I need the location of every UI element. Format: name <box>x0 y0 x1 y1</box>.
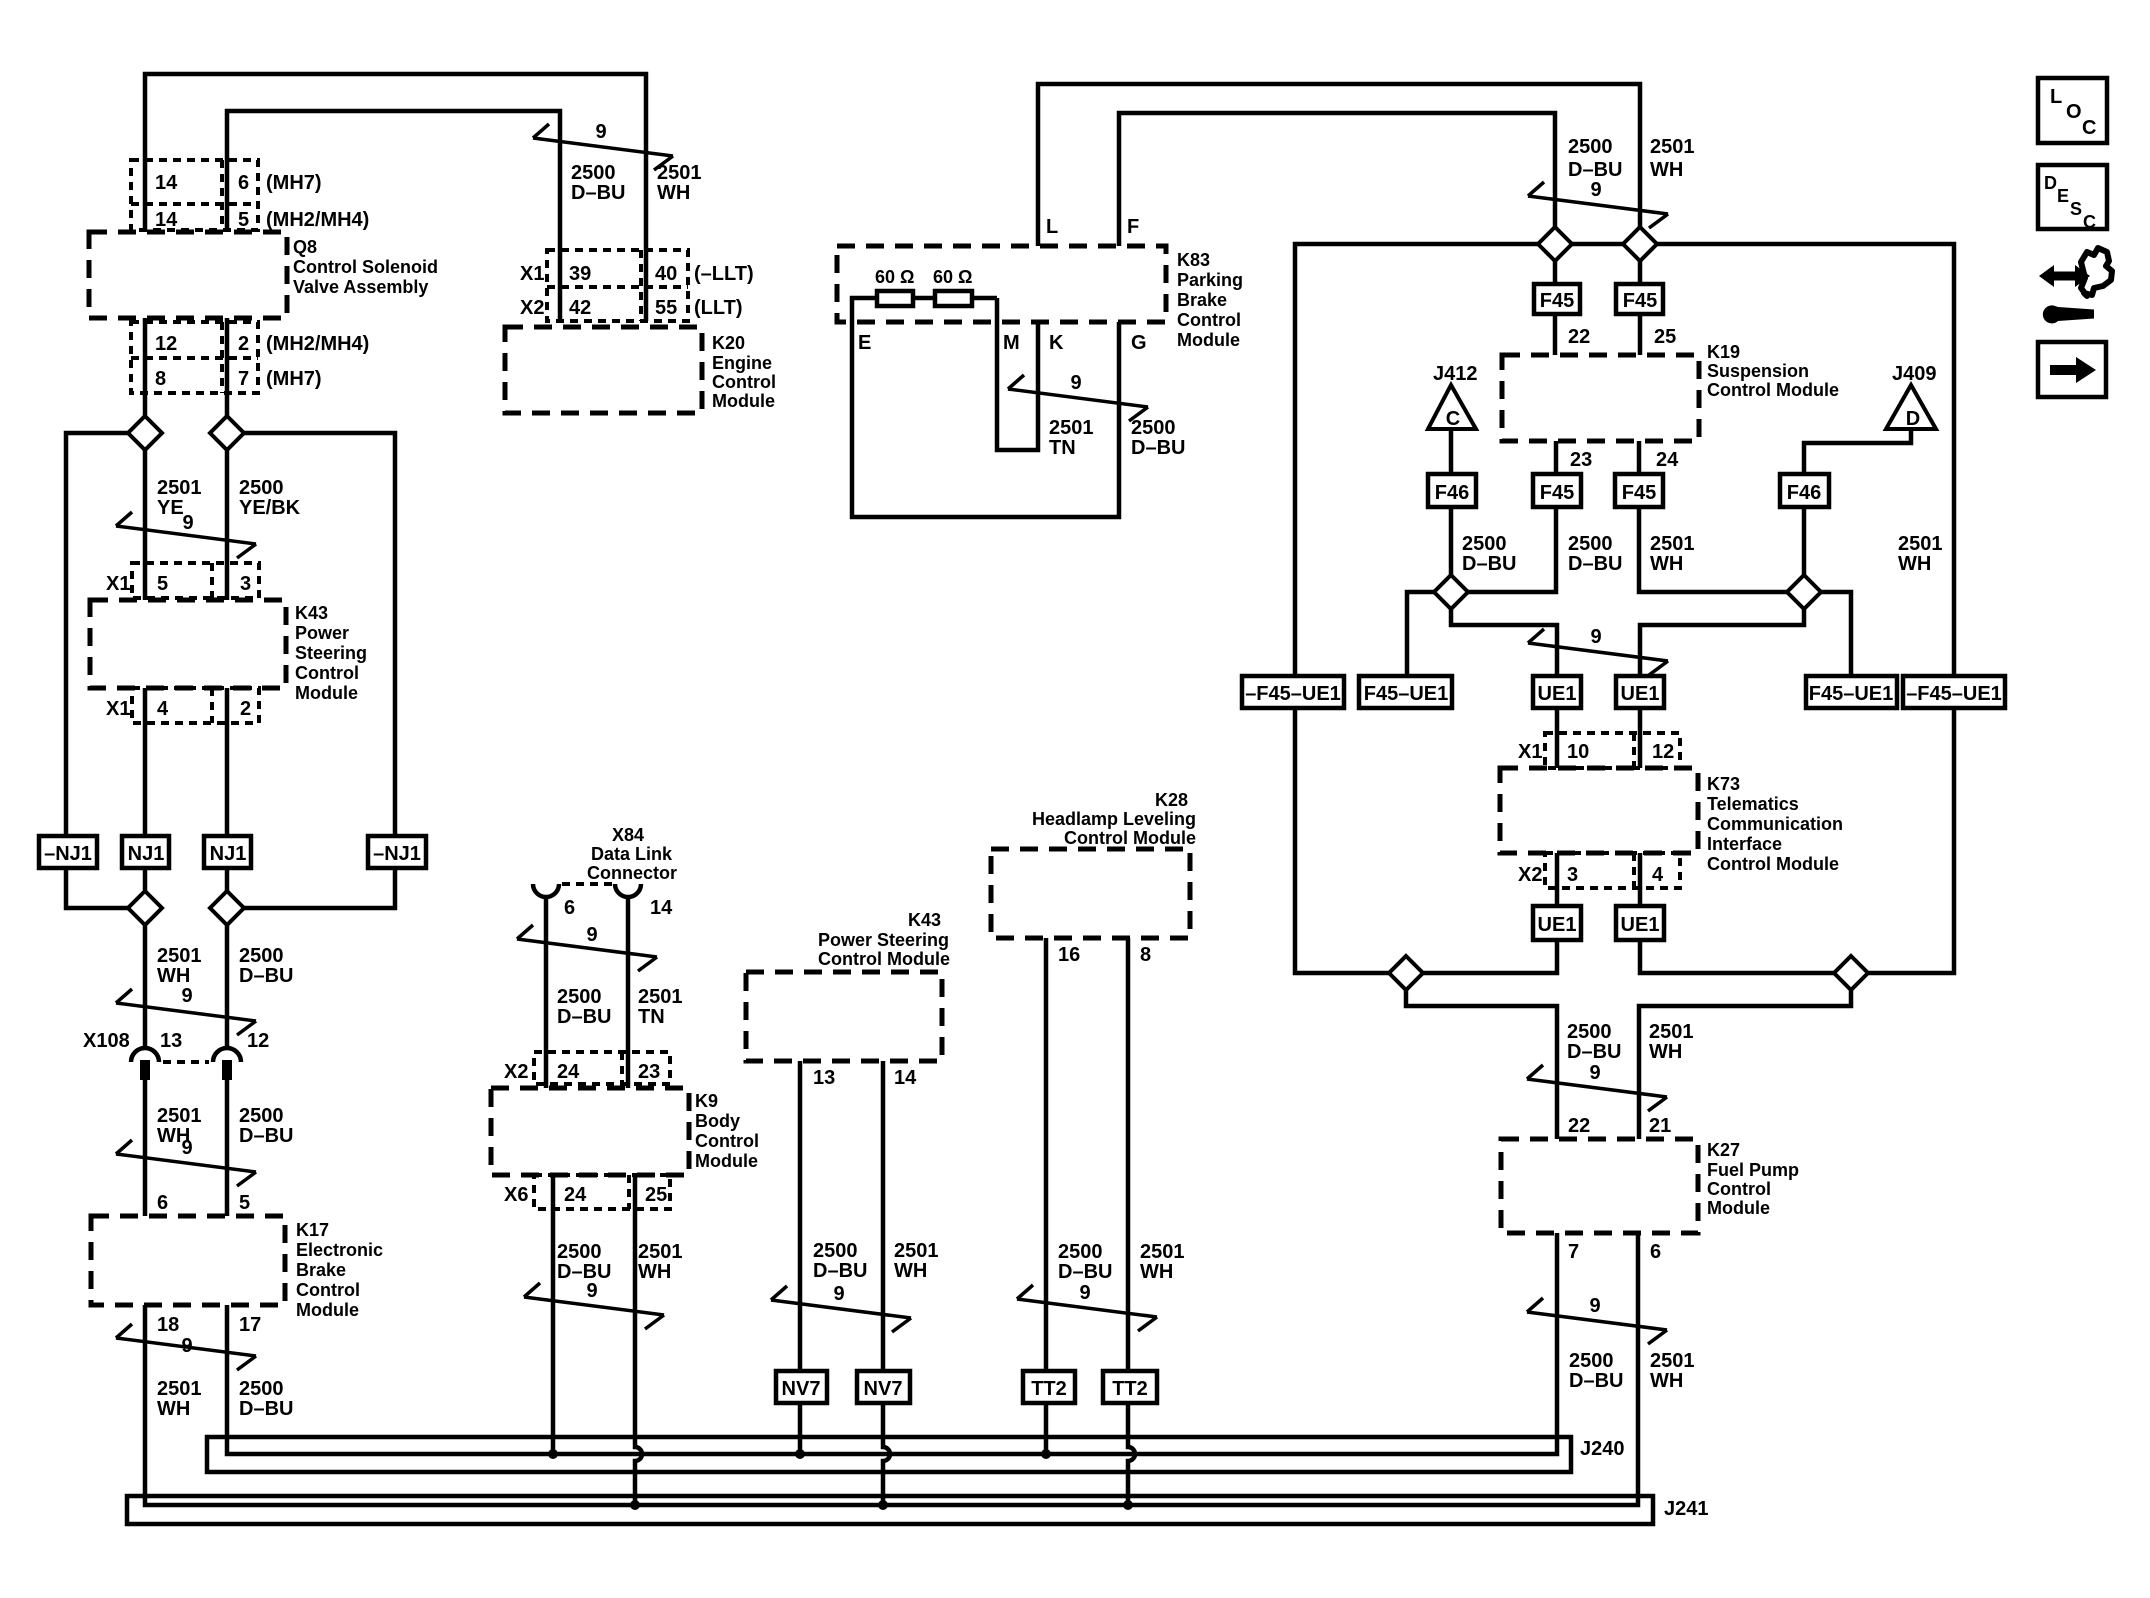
wire K83 pin M to pin K external loop 2501 TN <box>997 322 1038 450</box>
option box NV7 left <box>776 1371 827 1403</box>
svg-text:24: 24 <box>564 1184 587 1206</box>
wire 2501 YE from Q8 pin 14 up over to K20 pin 40/55 (2501 WH) <box>145 74 646 321</box>
svg-text:Connector: Connector <box>587 863 677 883</box>
svg-text:UE1: UE1 <box>1621 683 1660 705</box>
junction dot J240 at K28 wire <box>1041 1449 1051 1459</box>
wire 2501 from K43 pin 4 down <box>143 688 148 836</box>
svg-text:2501: 2501 <box>157 1105 202 1127</box>
node diamond on 2501 wire upper <box>128 416 162 450</box>
wire F46 left to diamond <box>1449 507 1454 575</box>
wire right bypass lower <box>244 868 395 908</box>
label K9 Body Control Module <box>695 1091 759 1171</box>
svg-text:2501: 2501 <box>1650 136 1695 158</box>
option box NV7 right <box>857 1371 910 1403</box>
svg-text:Control: Control <box>296 1280 360 1300</box>
twisted pair slash 9 below K17 <box>116 1324 256 1370</box>
svg-text:6: 6 <box>238 172 249 194</box>
svg-text:9: 9 <box>182 512 193 534</box>
connector K20 pin rows X1 39/40, X2 42/55 <box>547 250 688 321</box>
svg-text:5: 5 <box>239 1192 250 1214</box>
svg-text:Suspension: Suspension <box>1707 361 1809 381</box>
svg-text:2501: 2501 <box>638 986 683 1008</box>
wire 2501 WH K17 pin 18 down to J241 <box>145 1233 1638 1505</box>
svg-text:(LLT): (LLT) <box>694 297 743 319</box>
wire diamond down jog to UE1 left <box>1451 609 1557 676</box>
svg-text:E: E <box>2057 186 2069 206</box>
connector J412 triangle C <box>1428 363 1478 430</box>
svg-text:23: 23 <box>638 1061 660 1083</box>
svg-text:2501: 2501 <box>657 162 702 184</box>
svg-text:5: 5 <box>157 573 168 595</box>
node diamond on 2500 wire upper <box>210 416 244 450</box>
node diamond on 2501 wire lower <box>128 891 162 925</box>
wire X84 pin 6 down to K9 X2 24 <box>544 896 549 1088</box>
svg-text:3: 3 <box>1567 864 1578 886</box>
svg-text:D: D <box>1906 408 1920 430</box>
svg-text:2500: 2500 <box>571 162 616 184</box>
svg-text:F: F <box>1127 216 1139 238</box>
svg-text:21: 21 <box>1649 1115 1671 1137</box>
svg-text:9: 9 <box>833 1283 844 1305</box>
svg-text:D–BU: D–BU <box>239 965 293 987</box>
svg-text:F45–UE1: F45–UE1 <box>1364 683 1449 705</box>
svg-text:F45: F45 <box>1540 290 1574 312</box>
connector X108 pins 13/12 <box>131 1048 241 1080</box>
option box TT2 right <box>1103 1371 1157 1403</box>
pin labels K19 23/24 <box>1570 449 1679 471</box>
connector K43 X1 row pins 4/2 <box>132 688 259 723</box>
svg-text:WH: WH <box>1650 159 1683 181</box>
svg-text:9: 9 <box>586 924 597 946</box>
svg-text:K83: K83 <box>1177 250 1210 270</box>
svg-text:WH: WH <box>1650 553 1683 575</box>
wire X84 pin 14 down to K9 X2 23 <box>626 896 631 1088</box>
svg-text:24: 24 <box>557 1061 580 1083</box>
svg-text:Power Steering: Power Steering <box>818 930 949 950</box>
twisted pair slash 9 below K27 <box>1527 1298 1667 1344</box>
wire 2500 YE/BK from Q8 pin 5 over to K20 pin 39/42 (2500 D-BU) <box>227 111 560 321</box>
svg-text:X2: X2 <box>520 297 544 319</box>
wire diamond to F45-UE1 branch left <box>1407 592 1434 676</box>
junction dot J240 at K43 wire <box>795 1449 805 1459</box>
module K28 Headlamp Leveling Control Module box <box>991 849 1190 938</box>
svg-text:D–BU: D–BU <box>1462 553 1516 575</box>
node diamond left mid <box>1434 575 1468 609</box>
option labels (MH7)/(MH2/MH4) <box>266 172 369 231</box>
svg-text:S: S <box>2070 199 2082 219</box>
svg-text:WH: WH <box>638 1261 671 1283</box>
svg-text:3: 3 <box>240 573 251 595</box>
svg-text:40: 40 <box>655 263 677 285</box>
fuse box F45 right <box>1616 284 1663 314</box>
resistor 60 ohm right <box>935 291 972 306</box>
svg-text:2501: 2501 <box>894 1240 939 1262</box>
svg-text:13: 13 <box>813 1067 835 1089</box>
svg-text:Telematics: Telematics <box>1707 794 1799 814</box>
wire 2501 WH X108 to K17 <box>143 1080 148 1216</box>
svg-text:9: 9 <box>1070 372 1081 394</box>
wire K83 internal pin E to resistors <box>852 298 877 322</box>
wire diamond to F45 left <box>1553 261 1558 284</box>
svg-text:9: 9 <box>1590 626 1601 648</box>
wire 2500 YE/BK down to K43 <box>225 450 230 600</box>
svg-text:YE: YE <box>157 497 184 519</box>
svg-text:J412: J412 <box>1433 363 1478 385</box>
svg-text:2500: 2500 <box>239 1105 284 1127</box>
twisted pair slash 9 below X84 <box>517 925 657 971</box>
svg-text:X108: X108 <box>83 1030 130 1052</box>
svg-text:8: 8 <box>1140 944 1151 966</box>
svg-text:6: 6 <box>1650 1241 1661 1263</box>
svg-text:L: L <box>2050 86 2062 108</box>
wire J412 to F46 <box>1449 429 1454 474</box>
wire J409 to F46 right <box>1804 429 1911 474</box>
svg-text:Brake: Brake <box>1177 290 1227 310</box>
wire K83 pin E to pin G external loop <box>852 322 1119 517</box>
wire 2500 below NJ1 <box>225 868 230 891</box>
option box UE1 lower right <box>1616 906 1664 940</box>
pin labels X1 5/3 <box>106 573 251 595</box>
svg-text:X2: X2 <box>504 1061 528 1083</box>
svg-text:Power: Power <box>295 623 349 643</box>
svg-text:D–BU: D–BU <box>557 1006 611 1028</box>
svg-text:9: 9 <box>1589 1062 1600 1084</box>
wire F45 mid-left to diamond jog <box>1468 507 1556 592</box>
fuse box F45 mid-right <box>1615 474 1663 507</box>
svg-text:WH: WH <box>657 182 690 204</box>
svg-text:Control: Control <box>1177 310 1241 330</box>
pin labels K20 rows <box>520 263 677 319</box>
module K20 Engine Control Module <box>505 327 702 413</box>
label K43 Power Steering Control Module <box>295 603 367 703</box>
junction dot J241 at K9 wire <box>630 1500 640 1510</box>
pin labels Q8 lower rows <box>155 333 249 390</box>
svg-text:K28: K28 <box>1155 790 1188 810</box>
svg-text:Valve Assembly: Valve Assembly <box>293 277 428 297</box>
wire bottom diamond jog to 2500 feed <box>1406 990 1557 1139</box>
svg-text:K9: K9 <box>695 1091 718 1111</box>
svg-text:WH: WH <box>1650 1370 1683 1392</box>
svg-text:WH: WH <box>1140 1261 1173 1283</box>
svg-text:Engine: Engine <box>712 353 772 373</box>
connector J409 triangle D <box>1886 363 1937 430</box>
twisted pair slash 9 top right <box>1528 182 1668 228</box>
wire K73 X2 pin 3 to UE1 <box>1555 853 1560 906</box>
node diamond bottom right <box>1834 956 1868 990</box>
svg-text:X1: X1 <box>520 263 544 285</box>
svg-text:Electronic: Electronic <box>296 1240 383 1260</box>
svg-text:2500: 2500 <box>1567 1021 1612 1043</box>
svg-text:14: 14 <box>155 209 178 231</box>
option labels (MH2/MH4)/(MH7) <box>266 333 369 390</box>
pin labels K83 L/F <box>1046 216 1139 238</box>
svg-text:–F45–UE1: –F45–UE1 <box>1245 683 1341 705</box>
option box -NJ1 right <box>368 836 426 868</box>
svg-text:O: O <box>2066 101 2082 123</box>
svg-text:2501: 2501 <box>1650 533 1695 555</box>
svg-text:Interface: Interface <box>1707 834 1782 854</box>
svg-text:Communication: Communication <box>1707 814 1843 834</box>
label K20 Engine Control Module <box>712 333 776 411</box>
wire K28 pin 16 down to J240 <box>1044 938 1049 1454</box>
pin labels X1 4/2 <box>106 698 251 720</box>
svg-text:K19: K19 <box>1707 342 1740 362</box>
svg-text:NJ1: NJ1 <box>210 843 247 865</box>
pin labels K27 7/6 <box>1568 1241 1661 1263</box>
wire K9 X6 24 down to J240 <box>551 1175 556 1454</box>
svg-text:(–LLT): (–LLT) <box>694 263 754 285</box>
connector Q8 upper pin rows 14/6 (MH7), 14/5 (MH2/MH4) <box>131 160 258 230</box>
wire K19 pin 23 down to F45 <box>1554 441 1559 474</box>
option box -F45-UE1 far left <box>1242 676 1344 708</box>
svg-text:60 Ω: 60 Ω <box>933 267 972 287</box>
svg-text:2500: 2500 <box>1058 1241 1103 1263</box>
twisted pair slash 9 at K20 wires <box>533 124 673 170</box>
svg-text:16: 16 <box>1058 944 1080 966</box>
connector K43 X1 row pins 5/3 <box>132 563 259 598</box>
svg-text:2: 2 <box>240 698 251 720</box>
svg-text:D–BU: D–BU <box>1568 159 1622 181</box>
module K9 Body Control Module <box>491 1088 689 1175</box>
wire 2501 WH to X108 <box>143 925 148 1050</box>
pin labels K17 18/17 <box>157 1314 261 1336</box>
wire K9 X6 25 down to J241 with hop over J240 <box>635 1175 642 1505</box>
svg-text:F45–UE1: F45–UE1 <box>1809 683 1894 705</box>
twisted pair slash 9 above X108 <box>116 989 256 1035</box>
svg-text:2500: 2500 <box>239 477 284 499</box>
svg-text:24: 24 <box>1656 449 1679 471</box>
svg-text:2500: 2500 <box>557 986 602 1008</box>
option box UE1 upper right <box>1616 676 1664 708</box>
svg-text:UE1: UE1 <box>1538 914 1577 936</box>
svg-text:12: 12 <box>155 333 177 355</box>
wire K73 X2 pin 4 to UE1 <box>1638 853 1643 906</box>
svg-text:K27: K27 <box>1707 1140 1740 1160</box>
svg-text:2501: 2501 <box>1898 533 1943 555</box>
junction dot J241 at K28 wire <box>1123 1500 1133 1510</box>
svg-text:2501: 2501 <box>157 945 202 967</box>
module K83 Parking Brake Control Module <box>837 246 1166 322</box>
label K43 Power Steering Control Module (middle) <box>818 910 950 969</box>
module K19 Suspension Control Module <box>1502 355 1699 441</box>
svg-text:F46: F46 <box>1435 482 1469 504</box>
wire Q8 pin 2 down to diamond <box>225 318 230 416</box>
wire 2500 D-BU K17 pin 17 down to J240 <box>227 1233 1557 1454</box>
svg-text:Control Solenoid: Control Solenoid <box>293 257 438 277</box>
pin labels X2 3/4 <box>1518 864 1664 886</box>
svg-text:2500: 2500 <box>557 1241 602 1263</box>
svg-text:X6: X6 <box>504 1184 528 1206</box>
pin labels K27 22/21 <box>1568 1115 1671 1137</box>
twisted pair slash 9 below K43 <box>771 1286 911 1332</box>
svg-text:X1: X1 <box>106 573 130 595</box>
svg-text:Control Module: Control Module <box>818 949 950 969</box>
svg-text:9: 9 <box>1589 1295 1600 1317</box>
svg-text:8: 8 <box>155 368 166 390</box>
svg-text:D–BU: D–BU <box>1131 437 1185 459</box>
svg-text:Body: Body <box>695 1111 740 1131</box>
twisted pair slash 9 above UE1 <box>1528 629 1668 675</box>
svg-text:F46: F46 <box>1787 482 1821 504</box>
twisted pair slash 9 above K27 <box>1527 1065 1667 1111</box>
wire K83 pin F up and over to right 2500 D-BU <box>1119 113 1555 246</box>
svg-text:X2: X2 <box>1518 864 1542 886</box>
option box F45-UE1 left <box>1359 676 1452 708</box>
pin labels K43 13/14 <box>813 1067 917 1089</box>
svg-text:6: 6 <box>564 897 575 919</box>
svg-text:K43: K43 <box>908 910 941 930</box>
svg-text:4: 4 <box>1652 864 1664 886</box>
wire UE1 to K73 X1 pin 10 <box>1555 708 1560 768</box>
twisted pair slash 9 above K17 <box>116 1140 256 1186</box>
svg-text:Fuel Pump: Fuel Pump <box>1707 1160 1799 1180</box>
wire K19 pin 24 down to F45 <box>1637 441 1642 474</box>
option box F45-UE1 right <box>1806 676 1897 708</box>
twisted pair slash 9 above K43 <box>116 512 256 558</box>
svg-text:60 Ω: 60 Ω <box>875 267 914 287</box>
svg-text:2501: 2501 <box>157 1378 202 1400</box>
svg-text:NV7: NV7 <box>864 1378 903 1400</box>
svg-text:D: D <box>2044 173 2057 193</box>
svg-text:F45: F45 <box>1623 290 1657 312</box>
svg-text:TT2: TT2 <box>1031 1378 1067 1400</box>
svg-text:Control Module: Control Module <box>1707 854 1839 874</box>
svg-text:(MH7): (MH7) <box>266 368 322 390</box>
svg-text:K43: K43 <box>295 603 328 623</box>
svg-text:2500: 2500 <box>1568 136 1613 158</box>
icon hand with double arrow and wrench <box>2039 248 2112 323</box>
svg-text:D–BU: D–BU <box>813 1260 867 1282</box>
wire K28 pin 8 down to J241 with hop over J240 <box>1128 938 1135 1505</box>
option box -F45-UE1 far right <box>1903 676 2005 708</box>
pin labels Q8 upper row <box>155 172 249 231</box>
pin labels K83 E/M/K/G <box>858 332 1147 354</box>
svg-text:12: 12 <box>1652 741 1674 763</box>
label K27 Fuel Pump Control Module <box>1707 1140 1799 1218</box>
svg-text:Module: Module <box>695 1151 758 1171</box>
wire left bypass -NJ1 upper <box>66 433 128 836</box>
svg-text:Data Link: Data Link <box>591 844 673 864</box>
module K73 Telematics Communication Interface Control Module <box>1500 768 1698 853</box>
splice pack J241 outline <box>127 1496 1653 1524</box>
wire diamond to F45-UE1 branch right <box>1821 592 1851 676</box>
svg-text:23: 23 <box>1570 449 1592 471</box>
pin labels X1 10/12 <box>1518 741 1674 763</box>
option box UE1 upper left <box>1533 676 1581 708</box>
label K83 Parking Brake Control Module <box>1177 250 1243 350</box>
svg-text:WH: WH <box>1898 553 1931 575</box>
svg-text:9: 9 <box>1590 179 1601 201</box>
label K19 Suspension Control Module <box>1707 342 1839 400</box>
icon right arrow box <box>2038 342 2106 397</box>
svg-text:12: 12 <box>247 1030 269 1052</box>
svg-text:18: 18 <box>157 1314 179 1336</box>
svg-text:2500: 2500 <box>239 1378 284 1400</box>
connector K73 X2 row pins 3/4 <box>1545 853 1680 888</box>
svg-text:Control Module: Control Module <box>1707 380 1839 400</box>
svg-text:Control: Control <box>712 372 776 392</box>
svg-text:13: 13 <box>160 1030 182 1052</box>
pin labels X6 24/25 <box>504 1184 667 1206</box>
svg-text:2501: 2501 <box>157 477 202 499</box>
svg-text:M: M <box>1003 332 1020 354</box>
wire 2500 D-BU X108 to K17 <box>225 1080 230 1216</box>
svg-text:Control: Control <box>295 663 359 683</box>
svg-text:22: 22 <box>1568 326 1590 348</box>
svg-text:C: C <box>2083 212 2096 232</box>
svg-text:7: 7 <box>1568 1241 1579 1263</box>
svg-text:Module: Module <box>1177 330 1240 350</box>
svg-text:G: G <box>1131 332 1147 354</box>
svg-text:10: 10 <box>1567 741 1589 763</box>
wire F45 to K19 pin 25 <box>1638 314 1643 355</box>
svg-text:X84: X84 <box>612 825 644 845</box>
svg-text:D–BU: D–BU <box>239 1398 293 1420</box>
node diamond 2500 at top loop <box>1538 227 1572 261</box>
svg-text:D–BU: D–BU <box>571 182 625 204</box>
pin labels K17 6/5 <box>157 1192 250 1214</box>
fuse box F45 left <box>1534 284 1580 314</box>
svg-text:9: 9 <box>586 1280 597 1302</box>
wire UE1 down to bottom diamond left <box>1423 940 1557 973</box>
svg-text:2501: 2501 <box>1650 1350 1695 1372</box>
node diamond 2501 at top loop <box>1623 227 1657 261</box>
junction dot J240 at K9 wire <box>548 1449 558 1459</box>
svg-text:(MH7): (MH7) <box>266 172 322 194</box>
svg-text:E: E <box>858 332 871 354</box>
svg-text:39: 39 <box>569 263 591 285</box>
svg-text:WH: WH <box>894 1260 927 1282</box>
wire resistor to pin M <box>972 298 997 322</box>
svg-text:25: 25 <box>1654 326 1676 348</box>
svg-text:2: 2 <box>238 333 249 355</box>
pin labels X2 24/23 <box>504 1061 660 1083</box>
svg-text:Module: Module <box>296 1300 359 1320</box>
label K17 Electronic Brake Control Module <box>296 1220 383 1320</box>
fuse box F46 right <box>1780 474 1829 507</box>
svg-text:14: 14 <box>894 1067 917 1089</box>
svg-text:Module: Module <box>712 391 775 411</box>
svg-text:2501: 2501 <box>638 1241 683 1263</box>
wire between loop diamonds <box>1572 242 1623 247</box>
svg-text:K73: K73 <box>1707 774 1740 794</box>
connector K9 X6 row pins 24/25 <box>534 1175 670 1209</box>
wire 2500 D-BU to X108 <box>225 925 230 1050</box>
fuse box F45 mid-left <box>1533 474 1581 507</box>
svg-text:4: 4 <box>157 698 169 720</box>
option box NJ1 on 2500 <box>204 836 251 868</box>
svg-text:TN: TN <box>1049 437 1076 459</box>
svg-text:9: 9 <box>181 1137 192 1159</box>
svg-text:X1: X1 <box>106 698 130 720</box>
svg-text:2501: 2501 <box>1049 417 1094 439</box>
svg-text:C: C <box>2082 117 2096 139</box>
module K43 Power Steering Control Module (left) <box>90 600 286 688</box>
wire 2501 YE down to K43 <box>143 450 148 600</box>
wire main loop horizontal to right branch <box>1657 244 1954 973</box>
svg-text:WH: WH <box>1649 1041 1682 1063</box>
svg-text:9: 9 <box>181 985 192 1007</box>
svg-text:K20: K20 <box>712 333 745 353</box>
svg-text:Control: Control <box>695 1131 759 1151</box>
svg-text:2500: 2500 <box>1462 533 1507 555</box>
pin labels K28 16/8 <box>1058 944 1151 966</box>
pin labels X108 13/12 <box>83 1030 269 1052</box>
svg-text:(MH2/MH4): (MH2/MH4) <box>266 333 369 355</box>
svg-text:55: 55 <box>655 297 677 319</box>
wire between resistors <box>913 296 935 301</box>
label K28 Headlamp Leveling Control Module <box>1032 790 1196 848</box>
